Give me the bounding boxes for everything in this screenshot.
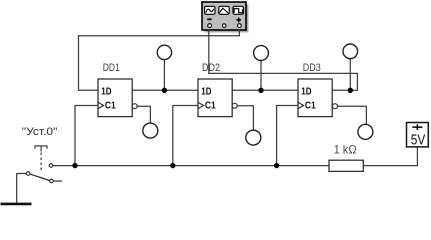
- lamp X6: [358, 124, 373, 139]
- flip-flop DD2: [198, 79, 237, 117]
- svg-text:DD2: DD2: [202, 62, 220, 74]
- lamp X1: [157, 45, 171, 59]
- sine wave glyph: [206, 9, 214, 13]
- wire XFG minus terminal to DD3 Q node: [209, 30, 358, 91]
- wire DD2 Q to DD3 1D: [232, 89, 298, 91]
- wire switch lower contact stub: [53, 180, 62, 182]
- battery V1 5V: [407, 123, 429, 149]
- junction node DD2.Q: [258, 88, 263, 93]
- terminal -: [208, 24, 212, 28]
- junction node rail-C1 DD2: [170, 163, 175, 168]
- wire DD3 C1 to clock rail: [277, 106, 298, 166]
- junction node DD1.Q: [162, 88, 167, 93]
- wire XFG plus terminal to DD1 1D input: [79, 30, 240, 91]
- svg-text:5V: 5V: [411, 132, 426, 149]
- svg-text:DD1: DD1: [103, 62, 120, 74]
- wire resistor to battery: [363, 147, 417, 166]
- junction node rail-C1 DD1: [72, 163, 77, 168]
- wire DD1 inverted output to lamp X4: [137, 106, 150, 123]
- ground: [1, 203, 32, 206]
- switch SA1 lower contact: [50, 179, 54, 183]
- junction node rail-C1 DD3: [274, 163, 279, 168]
- lamp X5: [246, 130, 261, 145]
- function generator XFG1 body: [202, 2, 246, 30]
- terminal +: [238, 24, 242, 28]
- switch SA1 key symbol: [35, 146, 47, 171]
- wire switch pivot to ground: [17, 174, 27, 203]
- resistor R1 1kOhm: [329, 160, 363, 171]
- flip-flop DD1: [98, 79, 137, 117]
- minus label: [207, 18, 211, 20]
- wire DD2 inverted output to lamp X5: [237, 106, 253, 130]
- svg-text:1D: 1D: [201, 86, 212, 98]
- svg-text:1 kΩ: 1 kΩ: [334, 143, 357, 157]
- switch SA1 pivot contact: [26, 172, 30, 176]
- svg-text:1D: 1D: [101, 86, 112, 98]
- svg-text:C1: C1: [205, 100, 216, 112]
- svg-text:"Уст.0": "Уст.0": [22, 126, 58, 138]
- flip-flop DD3: [298, 79, 338, 117]
- svg-text:C1: C1: [105, 100, 116, 112]
- lamp X2: [254, 46, 269, 61]
- svg-text:C1: C1: [305, 100, 316, 112]
- square wave glyph: [234, 9, 243, 13]
- svg-text:DD3: DD3: [303, 62, 321, 74]
- wire DD2 C1 to clock rail: [173, 106, 198, 166]
- wire lamp X3 drop: [349, 59, 351, 91]
- wire clock rail: [53, 165, 329, 167]
- wire DD1 C1 to clock rail: [75, 106, 98, 166]
- plus label: [236, 18, 241, 23]
- switch SA1 lever: [30, 174, 50, 180]
- wire DD1 Q to DD2 1D: [132, 89, 198, 91]
- wire lamp X1 drop: [163, 60, 165, 91]
- svg-text:1D: 1D: [301, 86, 312, 98]
- wire lamp X2 drop: [260, 61, 262, 91]
- triangle wave glyph: [219, 8, 228, 13]
- lamp X4: [143, 123, 158, 138]
- lamp X3: [343, 44, 358, 59]
- junction node DD3.Q: [348, 88, 353, 93]
- terminal common: [222, 24, 226, 28]
- function generator XFG1 shadow: [205, 5, 249, 33]
- switch SA1 upper contact: [49, 164, 53, 168]
- wire DD3 inverted output to lamp X6: [338, 106, 367, 124]
